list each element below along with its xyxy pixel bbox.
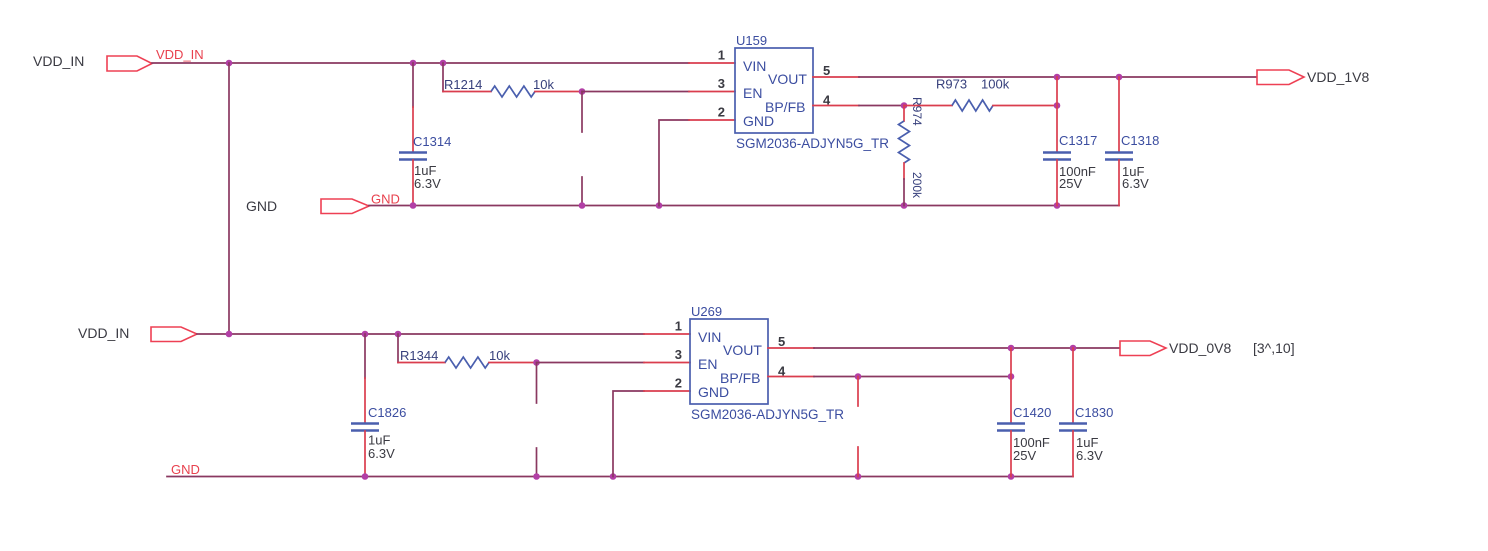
wire GND net (top) [369, 205, 1119, 207]
wire stub above GND net (lower dash, bottom) [536, 448, 538, 477]
wire R973 right lead [993, 105, 1057, 107]
wire C1314 lower lead [412, 160, 414, 206]
svg-text:VOUT: VOUT [723, 342, 762, 358]
pin 2 stub of U269 [644, 390, 690, 392]
capacitor C1318 [1105, 151, 1133, 153]
junction FB node [901, 102, 908, 109]
svg-text:1: 1 [675, 319, 682, 334]
junction trunk joins bottom VDD_IN [226, 331, 233, 338]
wire GND pin branch of U269 [613, 391, 644, 477]
wire R1214 right lead [535, 91, 582, 93]
junction GND at pin2 branch (bottom) [610, 473, 617, 480]
wire C1830 upper lead [1072, 348, 1074, 423]
op-amp U269 body [690, 319, 768, 404]
svg-text:3: 3 [718, 76, 725, 91]
wire C1314 upper lead [412, 63, 414, 107]
junction VOUT at C1317 [1054, 74, 1061, 81]
svg-text:C1314: C1314 [413, 134, 451, 149]
junction GND at C1420 [1008, 473, 1015, 480]
capacitor C1420 [997, 422, 1025, 424]
svg-text:3: 3 [675, 347, 682, 362]
svg-text:C1318: C1318 [1121, 133, 1159, 148]
wire R1344 branch drop [397, 334, 399, 363]
port VDD_0V8 [1120, 341, 1166, 356]
pin 1 stub of U269 [644, 333, 690, 335]
wire EN net to pin 3 [582, 91, 689, 93]
svg-text:SGM2036-ADJYN5G_TR: SGM2036-ADJYN5G_TR [736, 136, 889, 151]
junction on VDD_IN at C1314 [410, 60, 417, 67]
svg-text:VDD_IN: VDD_IN [156, 47, 204, 62]
svg-text:C1826: C1826 [368, 405, 406, 420]
wire C1318 upper lead [1118, 77, 1120, 152]
wire C1317 upper lead [1056, 77, 1058, 152]
pin 1 stub of U159 [689, 62, 735, 64]
svg-text:VIN: VIN [743, 58, 766, 74]
wire VDD_1V8 net [859, 76, 1257, 78]
junction FB at C1420 column [1008, 373, 1015, 380]
wire FB net (bottom) [814, 376, 1011, 378]
pin 3 stub of U159 [689, 91, 735, 93]
wire C1420 lower lead [1010, 431, 1012, 477]
port GND (top) [321, 199, 369, 214]
op-amp U159 body [735, 48, 813, 133]
wire R1214 left lead [443, 91, 491, 93]
resistor R1344 [445, 357, 489, 368]
junction VOUT at C1420 [1008, 345, 1015, 352]
svg-text:R1344: R1344 [400, 348, 438, 363]
svg-text:U269: U269 [691, 304, 722, 319]
svg-text:6.3V: 6.3V [1122, 176, 1149, 191]
junction GND at C1826 [362, 473, 369, 480]
svg-text:VDD_1V8: VDD_1V8 [1307, 69, 1369, 85]
wire EN net to pin 3 (bottom) [537, 362, 645, 364]
svg-text:C1420: C1420 [1013, 405, 1051, 420]
pin 2 stub of U159 [689, 119, 735, 121]
resistor R973 [952, 100, 993, 111]
wire stub above GND net (lower dash) [581, 177, 583, 206]
wire stub above GND at FB column [857, 447, 859, 477]
junction GND at FB stub (bottom) [855, 473, 862, 480]
junction EN node (bottom) [533, 359, 540, 366]
junction VDD_IN at C1826 [362, 331, 369, 338]
svg-text:R1214: R1214 [444, 77, 482, 92]
svg-text:R974: R974 [910, 97, 924, 126]
svg-text:200k: 200k [910, 172, 924, 199]
svg-text:[3^,10]: [3^,10] [1253, 340, 1295, 356]
svg-text:5: 5 [778, 334, 785, 349]
svg-text:10k: 10k [489, 348, 510, 363]
svg-text:2: 2 [675, 376, 682, 391]
pin 4 stub of U269 (BP/FB) [768, 376, 814, 378]
pin 5 stub of U269 (VOUT) [768, 347, 814, 349]
svg-text:25V: 25V [1059, 176, 1082, 191]
wire R973 left lead [904, 105, 952, 107]
svg-text:VOUT: VOUT [768, 71, 807, 87]
junction GND at EN stub [579, 202, 586, 209]
wire GND net (bottom) [167, 476, 1073, 478]
wire GND pin branch of U159 [659, 120, 689, 206]
svg-text:6.3V: 6.3V [368, 446, 395, 461]
port VDD_1V8 [1257, 70, 1304, 85]
svg-text:GND: GND [698, 384, 729, 400]
svg-text:GND: GND [171, 462, 200, 477]
svg-text:6.3V: 6.3V [414, 176, 441, 191]
wire VDD_0V8 net [814, 347, 1120, 349]
wire C1826 upper lead [364, 334, 366, 378]
svg-text:VDD_IN: VDD_IN [78, 325, 129, 341]
wire C1830 lower lead [1072, 431, 1074, 477]
junction VDD_IN at R1344 branch [395, 331, 402, 338]
svg-text:U159: U159 [736, 33, 767, 48]
wire VDD_IN net (bottom) [197, 333, 644, 335]
pin 5 stub of U159 (VOUT) [813, 76, 859, 78]
pin 3 stub of U269 [644, 362, 690, 364]
svg-text:EN: EN [743, 85, 762, 101]
svg-text:1: 1 [718, 48, 725, 63]
junction GND at C1314 [410, 202, 417, 209]
junction FB node (bottom) [855, 373, 862, 380]
svg-text:25V: 25V [1013, 448, 1036, 463]
wire C1420 upper lead [1010, 348, 1012, 423]
svg-text:VDD_IN: VDD_IN [33, 53, 84, 69]
capacitor C1830 [1059, 422, 1087, 424]
junction GND at EN stub (bottom) [533, 473, 540, 480]
junction GND at pin2 branch [656, 202, 663, 209]
svg-text:VIN: VIN [698, 329, 721, 345]
wire stub below EN node (upper dash) [581, 92, 583, 133]
svg-text:SGM2036-ADJYN5G_TR: SGM2036-ADJYN5G_TR [691, 407, 844, 422]
wire stub below EN node (upper dash, bottom) [536, 363, 538, 404]
svg-text:5: 5 [823, 63, 830, 78]
capacitor C1826 [351, 422, 379, 424]
capacitor C1317 [1043, 151, 1071, 153]
svg-text:R973: R973 [936, 77, 967, 92]
capacitor C1314 [399, 151, 427, 153]
svg-text:2: 2 [718, 105, 725, 120]
wire vertical trunk VDD_IN to bottom circuit [228, 63, 230, 334]
wire C1317 lower lead [1056, 160, 1058, 206]
svg-text:GND: GND [743, 113, 774, 129]
svg-text:100k: 100k [981, 77, 1010, 92]
junction GND at C1317 [1054, 202, 1061, 209]
svg-text:10k: 10k [533, 77, 554, 92]
wire R1344 right lead [489, 362, 537, 364]
junction VOUT at C1830 [1070, 345, 1077, 352]
wire VDD_IN net (port to VIN pin) [152, 62, 689, 64]
pin 4 stub of U159 (BP/FB) [813, 105, 859, 107]
junction on VDD_IN at R1214 branch [440, 60, 447, 67]
junction EN node [579, 88, 586, 95]
wire stub below FB node [857, 377, 859, 407]
resistor R1214 [491, 86, 535, 97]
junction GND at R974 [901, 202, 908, 209]
junction FB/VOUT column [1054, 102, 1061, 109]
svg-text:VDD_0V8: VDD_0V8 [1169, 340, 1231, 356]
svg-text:C1317: C1317 [1059, 133, 1097, 148]
wire R974 upper lead [903, 106, 905, 122]
wire C1318 lower lead [1118, 160, 1120, 206]
svg-text:C1830: C1830 [1075, 405, 1113, 420]
junction on VDD_IN at trunk [226, 60, 233, 67]
wire C1826 lower lead [364, 431, 366, 477]
junction VOUT at C1318 [1116, 74, 1123, 81]
svg-text:GND: GND [246, 198, 277, 214]
wire FB net [859, 105, 904, 107]
resistor R974 (vertical) [899, 121, 910, 163]
svg-text:EN: EN [698, 356, 717, 372]
port VDD_IN (bottom input) [151, 327, 197, 342]
svg-text:GND: GND [371, 192, 400, 207]
port VDD_IN (top input) [107, 56, 152, 71]
wire R974 lower lead [903, 163, 905, 179]
wire R1344 left lead [398, 362, 445, 364]
svg-text:6.3V: 6.3V [1076, 448, 1103, 463]
wire R1214 branch drop [442, 63, 444, 92]
